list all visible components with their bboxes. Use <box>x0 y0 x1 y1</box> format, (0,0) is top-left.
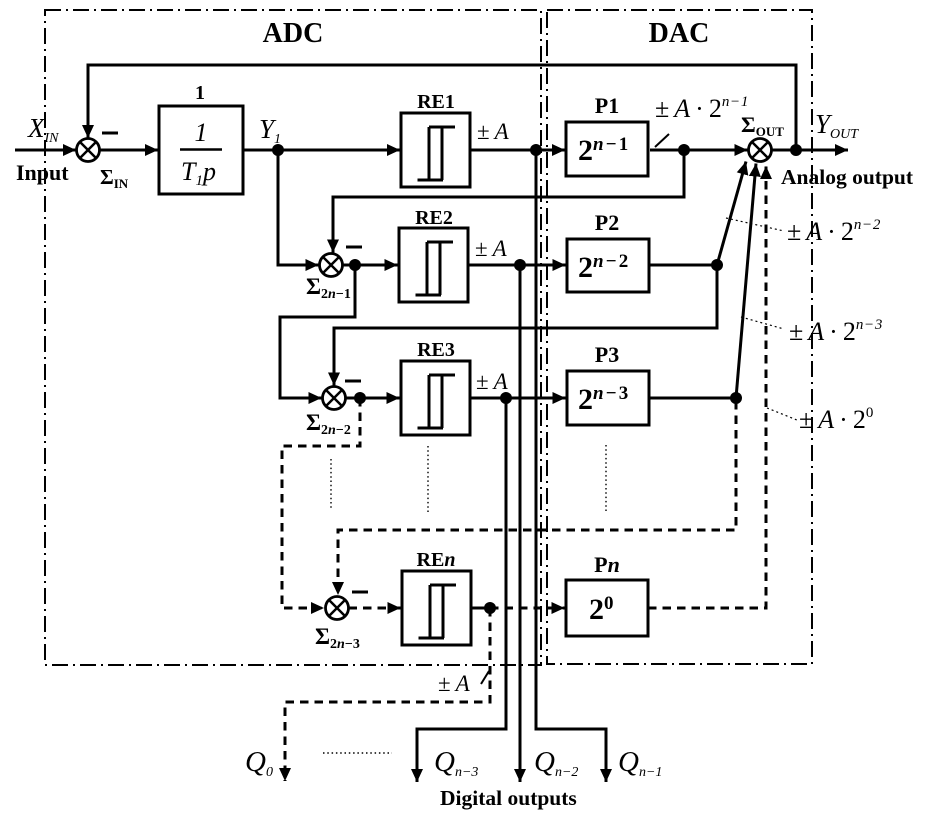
svg-text:1: 1 <box>195 118 208 147</box>
svg-text:RE3: RE3 <box>417 339 455 361</box>
svg-text:P2: P2 <box>595 210 619 235</box>
svg-text:REn: REn <box>417 549 456 571</box>
svg-text:1: 1 <box>195 82 205 104</box>
svg-text:P1: P1 <box>595 93 619 118</box>
svg-text:ADC: ADC <box>263 18 324 49</box>
svg-text:RE1: RE1 <box>417 91 455 113</box>
svg-text:Input: Input <box>16 160 69 185</box>
svg-text:RE2: RE2 <box>415 207 453 229</box>
svg-text:Digital outputs: Digital outputs <box>440 786 577 810</box>
svg-text:Analog output: Analog output <box>781 165 914 189</box>
svg-text:P3: P3 <box>595 342 619 367</box>
svg-text:Pn: Pn <box>594 552 620 577</box>
svg-text:DAC: DAC <box>649 18 710 49</box>
